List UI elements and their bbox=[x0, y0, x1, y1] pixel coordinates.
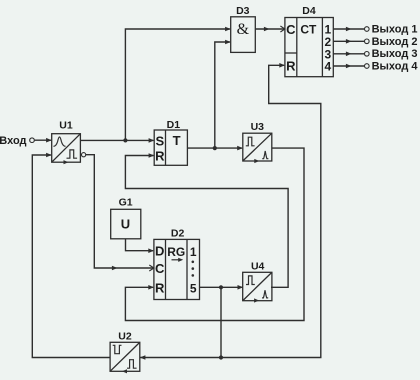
pulse shaper U2 box bbox=[110, 342, 140, 371]
svg-text:U: U bbox=[121, 216, 130, 231]
D2 ellipsis dots bbox=[192, 261, 195, 264]
pulse shaper U1 box bbox=[52, 134, 81, 163]
svg-text:D2: D2 bbox=[171, 228, 185, 240]
arrowhead into D3 input 1 bbox=[225, 27, 231, 32]
arrowhead mid-wire output 3 bbox=[346, 52, 352, 57]
U3 input waveform (square pulse) bbox=[246, 137, 255, 146]
svg-text:U3: U3 bbox=[251, 121, 265, 133]
wire: U3 output down and left to D2 R input bbox=[125, 148, 304, 320]
U3 output waveform (narrow spike) bbox=[262, 151, 268, 159]
terminal: Вход circle bbox=[30, 138, 35, 143]
svg-text:C: C bbox=[155, 261, 165, 276]
svg-text:R: R bbox=[155, 149, 165, 164]
U4 direction arrow on bottom edge bbox=[254, 298, 259, 302]
terminal: Выход 3 circle bbox=[365, 52, 370, 57]
arrowhead mid-wire on D2 C line bbox=[112, 266, 118, 271]
wire: D4 output 3 to terminal bbox=[333, 53, 364, 55]
wire: tap from D1 output up to D3 input 2 bbox=[215, 42, 230, 148]
register D2 box bbox=[154, 239, 200, 299]
svg-text:R: R bbox=[155, 280, 165, 295]
terminal: Выход 4 circle bbox=[365, 64, 370, 69]
terminal: Выход 1 circle bbox=[365, 27, 370, 32]
D2 RG direction arrow bbox=[172, 259, 182, 261]
svg-text:1: 1 bbox=[190, 245, 197, 259]
D4 dynamic input triangle C bbox=[280, 26, 285, 32]
wire: D3 output to D4 C input bbox=[255, 28, 285, 30]
node: junction bottom rail / U2 input bbox=[219, 355, 223, 359]
U1 output waveform (square pulse) bbox=[67, 150, 78, 158]
wire: D2 output 5 to U4 input bbox=[200, 286, 243, 288]
svg-text:Выход 1: Выход 1 bbox=[372, 23, 418, 35]
arrowhead into U2 input (pointing left) bbox=[140, 355, 146, 360]
svg-text:4: 4 bbox=[324, 60, 331, 74]
arrowhead mid-wire output 2 bbox=[346, 39, 352, 44]
arrowhead into U1 input 2 bbox=[46, 153, 52, 158]
svg-text:Выход 3: Выход 3 bbox=[372, 48, 418, 60]
wire: U2 output left and up to U1 input 2 bbox=[32, 155, 110, 358]
svg-text:D: D bbox=[155, 244, 164, 259]
svg-text:T: T bbox=[173, 133, 181, 148]
svg-text:Выход 2: Выход 2 bbox=[372, 36, 418, 48]
D2 dynamic input triangle C bbox=[149, 265, 154, 271]
svg-text:Вход: Вход bbox=[0, 135, 27, 147]
svg-text:D3: D3 bbox=[236, 5, 250, 17]
arrowhead into U1 input 1 bbox=[46, 138, 52, 143]
wire: D4 output 1 to terminal bbox=[333, 28, 364, 30]
svg-text:G1: G1 bbox=[119, 196, 133, 208]
wire: U1 output A to D1 S input bbox=[80, 139, 153, 141]
svg-text:RG: RG bbox=[167, 245, 185, 259]
pulse shaper U4 box bbox=[243, 272, 272, 300]
svg-text:Выход 4: Выход 4 bbox=[372, 60, 419, 72]
generator G1 box bbox=[111, 209, 141, 239]
arrowhead into D2 R bbox=[148, 285, 154, 290]
wire: D4 output 2 to terminal bbox=[333, 40, 364, 42]
svg-text:&: & bbox=[237, 21, 250, 38]
svg-text:D4: D4 bbox=[302, 5, 316, 17]
arrowhead into D2 D bbox=[148, 248, 154, 253]
arrowhead mid-wire output 4 bbox=[346, 64, 352, 69]
arrowhead into D4 R bbox=[279, 63, 285, 68]
wire: bottom rail from U2 input right and up to D4 R input bbox=[140, 65, 321, 357]
U4 input waveform (square pulse) bbox=[246, 276, 255, 285]
node: junction U1 outA / D3 tap bbox=[123, 138, 127, 142]
svg-text:D1: D1 bbox=[167, 119, 181, 131]
arrowhead into U4 input bbox=[238, 285, 244, 290]
wire: tap from D2 output 5 down to bottom rail bbox=[220, 287, 222, 357]
wire: U1 inverted output B down to D2 C input bbox=[86, 155, 153, 268]
U1 direction arrow on bottom edge bbox=[64, 160, 69, 164]
wire: D1 output to U3 input bbox=[187, 147, 242, 149]
wire: G1 output down to D2 D input bbox=[126, 239, 154, 251]
terminal: Выход 2 circle bbox=[365, 39, 370, 44]
wire: tap from U1 output A up to D3 input 1 bbox=[125, 29, 229, 140]
U3 direction arrow on bottom edge bbox=[254, 159, 259, 163]
U2 input waveform (negative pulse, top-left) bbox=[113, 345, 122, 353]
svg-text:U2: U2 bbox=[118, 331, 132, 343]
arrowhead mid-wire D3 to D4 bbox=[264, 27, 270, 32]
wire: D4 output 4 to terminal bbox=[333, 65, 364, 67]
arrowhead into D3 input 2 bbox=[225, 40, 231, 45]
svg-text:R: R bbox=[286, 59, 296, 74]
U1 inverted output circle bbox=[82, 153, 86, 157]
node: junction D1 out / D3 tap bbox=[213, 146, 217, 150]
flip-flop D1 box bbox=[154, 130, 187, 165]
arrowhead into U3 input bbox=[237, 146, 243, 151]
wire: Вход terminal to U1 input 1 bbox=[35, 139, 51, 141]
U1 input waveform (bell pulse) bbox=[54, 137, 66, 146]
svg-text:5: 5 bbox=[190, 282, 197, 296]
U2 direction arrow on bottom edge (pointing left) bbox=[122, 369, 127, 373]
svg-text:U1: U1 bbox=[59, 119, 73, 131]
counter D4 box bbox=[285, 18, 333, 77]
svg-text:CT: CT bbox=[300, 23, 317, 37]
AND gate D3 box bbox=[231, 17, 256, 53]
arrowhead into D1 S bbox=[149, 138, 155, 143]
pulse shaper U3 box bbox=[243, 133, 272, 161]
U4 output waveform (narrow spike) bbox=[262, 290, 268, 298]
U2 output waveform (square pulse, bottom-right) bbox=[127, 360, 137, 369]
node: junction D2 out5 / bottom rail tap bbox=[219, 285, 223, 289]
arrowhead mid-wire output 1 bbox=[346, 27, 352, 32]
wire: U4 output up and left to D1 R input bbox=[125, 156, 288, 288]
svg-text:U4: U4 bbox=[251, 261, 265, 273]
arrowhead into D1 R bbox=[149, 153, 155, 158]
svg-text:S: S bbox=[155, 134, 164, 149]
svg-text:C: C bbox=[286, 22, 296, 37]
